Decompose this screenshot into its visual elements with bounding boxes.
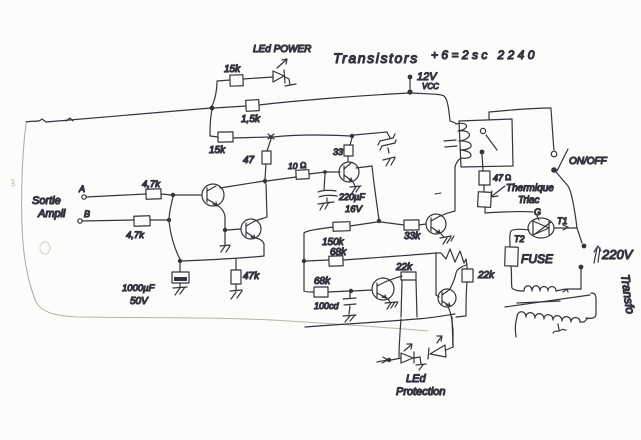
- svg-text:A: A: [78, 184, 85, 194]
- svg-text:Transistors: Transistors: [333, 50, 419, 66]
- node VCC: [407, 75, 412, 95]
- resistor 33 vertical: [344, 138, 353, 162]
- svg-text:Ampli: Ampli: [37, 208, 66, 220]
- relay arm: [486, 135, 497, 150]
- svg-text:16V: 16V: [345, 204, 364, 215]
- svg-text:10: 10: [288, 161, 298, 171]
- node row3: [349, 289, 353, 293]
- svg-text:100cd: 100cd: [314, 301, 340, 311]
- node J1: [210, 106, 215, 111]
- transistor Q5: [438, 289, 456, 307]
- wire switch to T1 line: [556, 172, 577, 228]
- wire 15k to junction X: [233, 137, 270, 138]
- svg-text:Ω: Ω: [300, 160, 307, 170]
- fuse box: [505, 247, 519, 266]
- wire Q1 emitter down: [218, 206, 225, 228]
- transistor Q4: [372, 278, 394, 300]
- paper border left: [22, 124, 36, 302]
- transformer core lines: [505, 295, 590, 307]
- svg-text:LEd: LEd: [406, 373, 426, 385]
- wire to node B: [150, 219, 168, 221]
- wire bottom rail left: [182, 256, 264, 261]
- wire LED to Q5 emitter: [446, 317, 453, 350]
- svg-text:LEd POWER: LEd POWER: [253, 44, 311, 55]
- svg-text:22k: 22k: [395, 262, 413, 273]
- wire 68k to zigzag: [343, 253, 436, 260]
- wire Q5 emitter down: [448, 307, 453, 347]
- resistor zigzag: [436, 249, 467, 265]
- resistor 15k: [230, 75, 243, 86]
- wire row2 down to Q5 base: [436, 253, 439, 297]
- relay cap bars: [444, 140, 457, 147]
- wire fuse to primary: [511, 266, 524, 291]
- resistor 4,7k A: [146, 189, 161, 200]
- wire Q3 collector to relay: [441, 167, 455, 216]
- svg-text:47: 47: [243, 155, 255, 166]
- switch contact circle: [551, 151, 557, 157]
- transistor Q6: [339, 162, 372, 182]
- wire Q6 collector long vertical: [372, 166, 379, 220]
- wire Q1 collector to node: [220, 181, 264, 188]
- wire VCC to relay: [412, 93, 450, 121]
- LED middle tick: [414, 357, 426, 370]
- wire down to switch: [551, 109, 554, 150]
- label 47ohm: [493, 173, 511, 183]
- transformer bracket right: [586, 293, 596, 318]
- wire node to 33k: [381, 222, 404, 225]
- resistor 47 vertical: [262, 139, 271, 179]
- svg-text:B: B: [84, 209, 90, 219]
- wire mains to primary: [580, 269, 582, 289]
- switch blade: [557, 149, 568, 171]
- svg-text:FUSE: FUSE: [521, 252, 554, 266]
- wire 68k to node: [328, 291, 349, 292]
- capacitor 100n: [343, 293, 356, 322]
- resistor 4,7k B: [134, 216, 150, 227]
- LED power diode: [273, 70, 296, 86]
- resistor 47k lower: [230, 259, 242, 299]
- wire T1 down to mains: [577, 228, 582, 243]
- svg-text:1000µF: 1000µF: [122, 283, 156, 294]
- node Q2 base: [223, 228, 227, 232]
- wire to Q6 base: [327, 171, 340, 173]
- resistor 68k row3: [314, 287, 328, 297]
- svg-text:ON/OFF: ON/OFF: [569, 156, 608, 167]
- resistor 33k: [404, 220, 419, 230]
- svg-text:Triac: Triac: [518, 195, 539, 206]
- wire B to 4,7k: [82, 220, 134, 221]
- LED D3 arrow: [404, 344, 412, 351]
- wire gate lead: [537, 216, 539, 220]
- ground Q2 base: [220, 232, 230, 252]
- wire thermal to gate: [485, 207, 533, 213]
- 220V arrow: [594, 246, 601, 263]
- wire to Q1 base node: [161, 194, 172, 195]
- node row2: [302, 259, 306, 263]
- LED D4 arrow: [437, 336, 442, 343]
- paper border bottom: [36, 302, 428, 331]
- switch bottom dot: [551, 167, 557, 173]
- resistor 150k: [333, 222, 350, 232]
- svg-text:Thermique: Thermique: [506, 183, 554, 194]
- relay coil: [450, 121, 471, 167]
- svg-text:47: 47: [493, 173, 504, 183]
- LED arrow: [277, 59, 287, 68]
- node Q1 base: [171, 193, 175, 197]
- bottom rail: [305, 314, 455, 327]
- LED D3: [401, 352, 414, 363]
- resistor 68k row2: [329, 256, 343, 266]
- wire Q4 collector to 22k mid: [388, 276, 402, 281]
- terminal B: [78, 209, 90, 223]
- node B: [167, 218, 171, 222]
- resistor 15k second: [218, 132, 233, 142]
- svg-text:50V: 50V: [130, 296, 149, 307]
- smudge left small: [11, 179, 14, 186]
- thermal switch box: [478, 192, 492, 208]
- svg-text:Transfo: Transfo: [618, 273, 637, 315]
- wire node to zener: [354, 132, 387, 135]
- svg-text:33k: 33k: [404, 231, 421, 242]
- node bottom: [178, 259, 182, 263]
- svg-text:Protection: Protection: [396, 386, 446, 398]
- mains top dot: [582, 244, 587, 249]
- node base Q6: [323, 170, 327, 174]
- label 12V VCC: [417, 71, 439, 91]
- svg-text:33: 33: [333, 147, 343, 157]
- svg-text:Ω: Ω: [505, 173, 511, 182]
- svg-text:68k: 68k: [330, 247, 347, 258]
- wire node to 10ohm: [267, 177, 296, 181]
- capacitor 220uF: [318, 174, 337, 210]
- relay box: [459, 119, 513, 167]
- relay contact circle: [480, 128, 485, 133]
- resistor 22k right: [456, 266, 473, 317]
- wire row2 to 68k: [306, 260, 329, 261]
- wire to VCC node: [259, 93, 409, 105]
- node collector Q1: [263, 179, 267, 183]
- wire T1: [554, 225, 577, 230]
- svg-text:47k: 47k: [243, 271, 260, 282]
- wire J1 up to 15k row: [212, 82, 217, 106]
- svg-text:4,7k: 4,7k: [126, 230, 145, 241]
- node row1: [377, 219, 381, 223]
- wire rail to LED row: [399, 319, 401, 357]
- svg-text:4,7k: 4,7k: [142, 179, 161, 190]
- transistor Q1: [202, 184, 224, 206]
- wire 150k to node: [350, 222, 377, 226]
- wire J1 to R 1,5k: [214, 106, 246, 108]
- transistor Q2: [241, 219, 261, 239]
- zener diode: [378, 132, 396, 166]
- junction X: [268, 134, 274, 139]
- wire 47ohm to thermal: [483, 185, 485, 192]
- ground Q3: [440, 234, 454, 244]
- wire corner to 15k: [210, 136, 218, 137]
- secondary center tap ground: [553, 324, 566, 333]
- svg-text:220µF: 220µF: [338, 192, 365, 202]
- resistor 22k mid: [401, 272, 417, 317]
- svg-text:G: G: [534, 207, 541, 217]
- svg-text:220V: 220V: [601, 247, 634, 262]
- wire T2 to fuse: [510, 229, 529, 247]
- ground Q4: [385, 299, 398, 309]
- wire to LED1: [391, 358, 401, 360]
- wire relay common down: [482, 154, 483, 171]
- wire node to Q2: [227, 229, 241, 230]
- relay common dot: [480, 150, 485, 155]
- node N33: [350, 134, 354, 138]
- tiny dash: [435, 193, 441, 194]
- lower block left vertical top: [304, 227, 333, 233]
- wire A to 4,7k: [86, 194, 146, 197]
- wire to resistor 15k: [217, 80, 230, 81]
- wire Q2 collector up: [255, 183, 267, 221]
- svg-text:22k: 22k: [477, 270, 495, 281]
- row3 corner: [304, 291, 314, 292]
- wire 10ohm to base node: [309, 172, 325, 174]
- svg-text:15k: 15k: [224, 64, 241, 75]
- wire node to Q4: [353, 290, 372, 291]
- wire node to Q1: [175, 194, 202, 196]
- resistor 10ohm: [296, 170, 309, 180]
- svg-text:+6=2sc 2240: +6=2sc 2240: [431, 48, 538, 62]
- svg-text:68k: 68k: [314, 276, 331, 287]
- svg-text:1,5k: 1,5k: [241, 114, 261, 125]
- wire 15k to LED: [243, 77, 273, 79]
- capacitor 1000uF: [172, 263, 189, 295]
- mains bottom dot: [579, 265, 584, 270]
- resistor 47ohm: [479, 171, 490, 185]
- terminal A: [78, 184, 86, 199]
- wire left vertical down: [169, 197, 180, 259]
- wire J1 down to 15k second row: [210, 110, 212, 136]
- transformer secondary: [515, 312, 588, 337]
- wire main top rail: [26, 108, 211, 122]
- wire 33k to Q3: [419, 224, 426, 225]
- svg-text:T1: T1: [557, 216, 568, 226]
- node LED left: [387, 358, 391, 362]
- triac U1: [528, 218, 554, 238]
- wire Q2 emitter down: [256, 238, 264, 256]
- wire junction to node 33: [273, 135, 350, 137]
- arrow to thermal: [491, 186, 505, 197]
- ground Q6 emitter: [350, 182, 361, 193]
- transistor Q3: [426, 214, 446, 234]
- LED D4: [428, 345, 446, 359]
- smudge left: [40, 242, 50, 254]
- svg-text:VCC: VCC: [422, 82, 439, 91]
- lower block left vertical: [303, 233, 305, 291]
- wire relay to on/off: [489, 108, 551, 120]
- resistor 1,5k: [246, 100, 260, 112]
- svg-text:T2: T2: [514, 234, 525, 244]
- svg-text:Sortie: Sortie: [32, 195, 61, 207]
- wire zigzag down to Q5 collector: [450, 265, 466, 289]
- LED row left arrow: [377, 357, 388, 363]
- svg-text:15k: 15k: [209, 145, 226, 156]
- transformer primary: [524, 286, 581, 292]
